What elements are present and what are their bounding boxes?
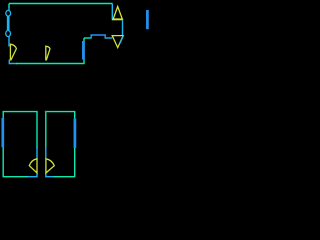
door triangle down (yellow) [112, 36, 123, 48]
room 2 right edge lower (cyan) [36, 147, 38, 159]
window ring 1 on left wall (cyan oval) [6, 10, 11, 16]
window thick overlay on room 3 right edge (blue) [74, 119, 77, 149]
wall bottom edge left part (cyan) [9, 63, 17, 65]
interior wall y=38 left part (green) [84, 37, 91, 39]
room 3 left edge lower (cyan) [45, 147, 47, 159]
wall left thick segment (cyan) [7, 16, 10, 30]
door wedge 1 on left wall (yellow) [10, 44, 16, 60]
window ring 2 on left wall (cyan oval) [6, 31, 11, 37]
door triangle up (yellow) [113, 7, 122, 20]
room 2 outline (green, right edge stops at door) [3, 112, 37, 177]
wall left bottom stub (cyan) [8, 60, 10, 65]
wall left top stub (green) [8, 4, 10, 9]
window jog on interior wall (blue) [91, 35, 105, 39]
room 3 outline (green, left edge stops at door) [46, 112, 75, 177]
wall right top vertical x=112 (cyan) [111, 4, 113, 20]
door base line (yellow) [112, 19, 123, 21]
wall right mid vertical x=122.5 (cyan) [122, 20, 124, 35]
window thick overlay on x=84 wall (blue) [82, 41, 85, 60]
door leaf diagonal (cyan) [120, 35, 124, 43]
door wedge 2 freestanding (yellow) [46, 46, 50, 60]
door fan 2 in room 3 (yellow) [46, 159, 54, 173]
window thick overlay on room 2 left edge (blue) [1, 118, 4, 147]
interior wall y=38 right part (cyan) [105, 37, 113, 39]
corner dot room 3 (dark yellow) [45, 111, 47, 113]
wall left mid (cyan) [8, 37, 10, 47]
room 2 bottom right corner (cyan) [28, 173, 37, 177]
door fan 1 in room 2 (yellow) [29, 159, 37, 173]
wall top edge (green) [9, 3, 113, 5]
window standalone segment (blue) [146, 10, 149, 29]
room 3 bottom left corner (cyan) [46, 173, 54, 177]
wall bottom edge (green) [16, 63, 85, 65]
wall left upper (cyan) [8, 8, 10, 11]
wall right lower vertical x=84 (green) [83, 38, 85, 64]
